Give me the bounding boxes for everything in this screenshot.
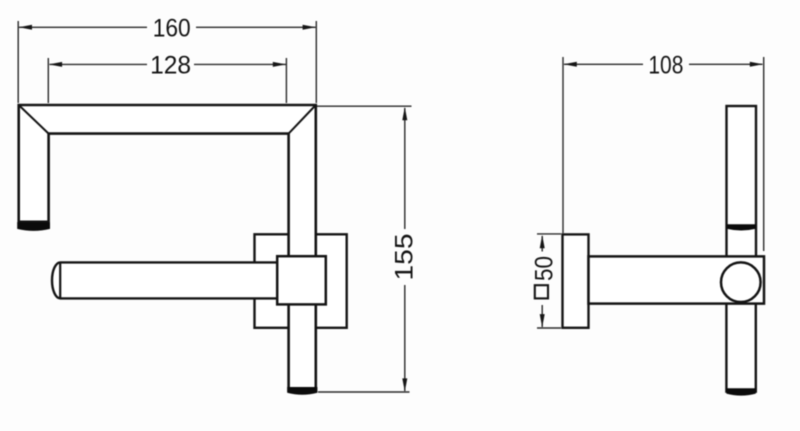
dimension 128 arrow left [49,62,62,67]
holder frame outline (front view) [19,105,316,391]
dimension 108 arrow left [564,62,577,67]
dimension 160 arrow left [19,25,32,30]
upper post end band [727,224,756,230]
svg-text:108: 108 [648,52,683,80]
dimension 50 line [541,236,543,327]
dimension 108 arrow right [750,62,763,67]
dimension 155 arrow down [402,378,407,391]
paper roll rod (front view) [52,262,278,298]
dimension 108 line [564,63,763,65]
dimension 160 line [19,26,316,28]
svg-text:160: 160 [153,15,191,43]
dimension 128 line [50,63,287,65]
dimension 50 square symbol [535,285,548,298]
dimension 128 extension line left [47,58,49,103]
miter line left corner [19,105,49,134]
miter line right corner [289,105,316,134]
mounting block (front view) [277,256,326,304]
left post end cap [17,222,50,231]
rod end face edge [59,263,61,298]
dimension 155 line [404,108,406,391]
svg-text:155: 155 [391,234,419,281]
dimension 155 arrow up [402,107,407,120]
lower post end cap (side view) [726,388,755,395]
dimension 108 extension line left [562,57,564,233]
dimension 50 tick bottom [537,327,561,329]
svg-text:128: 128 [150,52,191,80]
dimension 160 extension line left [17,21,19,103]
dimension 160 arrow right [303,25,316,30]
dimension 128 extension line right [285,58,287,103]
rod end circle (side view) [721,262,761,302]
wall plate (side view) [563,234,589,327]
dimension 50 arrow down [540,314,545,327]
dimension 50 arrow up [540,235,545,248]
upper post (side view) [727,106,757,257]
right post end cap (front view) [287,387,317,395]
dimension 128 arrow right [273,62,286,67]
svg-text:50: 50 [531,256,559,281]
dimension 108 extension line right [763,57,765,251]
dimension 155 extension line top [317,105,412,107]
dimension 160 extension line right [315,21,317,103]
support arm (side view) [589,256,765,303]
lower post (side view) [726,300,755,392]
dimension 155 extension line bottom [318,391,410,393]
wall plate (front view) [255,234,347,327]
dimension 50 tick top [537,233,561,235]
